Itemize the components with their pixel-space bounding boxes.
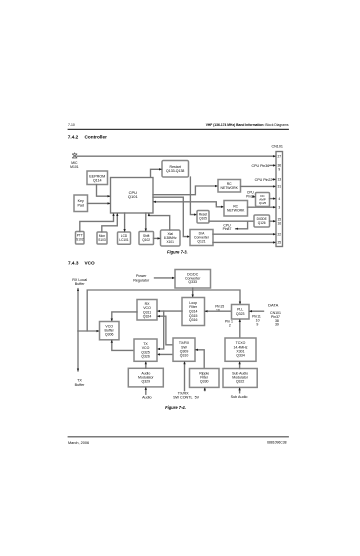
upper RC network — [218, 180, 241, 193]
svg-text:9: 9 — [256, 323, 258, 327]
crystal X101 — [161, 230, 181, 246]
wire TX VCO to VCO buffer bottom — [112, 340, 134, 350]
svg-text:13: 13 — [277, 178, 281, 182]
lower RC network — [224, 201, 248, 217]
wire buffer net to VCO buffer — [78, 330, 99, 332]
svg-text:M101: M101 — [70, 165, 79, 169]
svg-text:SW CONTL: SW CONTL — [173, 396, 192, 400]
svg-text:Q334: Q334 — [236, 354, 245, 358]
shift Q102 — [139, 232, 154, 245]
wire TX/RX SW to TX VCO — [157, 353, 173, 355]
wire shift to crystal — [154, 237, 161, 239]
wire MIC to CN101 pin27 — [77, 155, 276, 157]
svg-text:Q322: Q322 — [236, 380, 245, 384]
svg-text:S103: S103 — [98, 238, 106, 242]
wire PTT to CPU — [80, 214, 114, 232]
label CPU Pin21 — [246, 191, 255, 199]
wire keypad to CPU — [88, 202, 111, 204]
connector CN101 — [271, 145, 282, 247]
svg-text:27: 27 — [277, 154, 281, 158]
wire TX/RX SW to RX VCO — [157, 316, 173, 345]
svg-text:Q310: Q310 — [180, 354, 189, 358]
svg-text:Buffer: Buffer — [75, 383, 86, 387]
svg-text:Q101: Q101 — [128, 194, 139, 199]
wire restart network to reset — [190, 177, 196, 215]
svg-text:Audio: Audio — [142, 396, 151, 400]
wire DATA to PLL — [249, 310, 263, 312]
label RX Local Buffer — [72, 278, 87, 286]
svg-text:Q125: Q125 — [259, 201, 267, 205]
PLL Q323 — [232, 305, 250, 320]
wire to TX buffer (down arrow) — [77, 331, 79, 371]
wire DC amp to pin4 — [270, 198, 276, 200]
svg-text:9: 9 — [278, 168, 280, 172]
svg-text:Pin87: Pin87 — [223, 227, 232, 231]
reset Q105 — [197, 211, 209, 224]
EEPROM Q114 — [87, 171, 108, 185]
monitor S103 — [97, 232, 107, 244]
label Pin11 10 9 — [252, 315, 261, 327]
svg-text:Q306: Q306 — [105, 333, 114, 337]
wire monitor to CPU — [102, 214, 118, 233]
DC amp Q125 — [256, 193, 270, 207]
wire RX VCO to VCO buffer top — [112, 312, 137, 321]
wire to pin13 — [273, 178, 276, 180]
svg-text:NETWORK: NETWORK — [221, 186, 239, 190]
wire buffer net to PLL top — [87, 290, 240, 331]
wire CPU to upper RC network — [153, 186, 218, 195]
label Pin15 16 — [215, 305, 224, 313]
svg-text:16: 16 — [277, 222, 281, 226]
svg-text:VHF (136-174 MHz) Band Informa: VHF (136-174 MHz) Band Information: Bloc… — [206, 123, 289, 127]
svg-text:Figure 7-4.: Figure 7-4. — [165, 405, 186, 410]
DC/DC converter Q333 — [175, 270, 211, 289]
wire pin21 to DC amp — [253, 196, 256, 198]
ripple filter Q330 — [190, 369, 220, 388]
wire TCXO to PLL — [239, 319, 241, 338]
header rule — [68, 129, 289, 130]
svg-text:31: 31 — [277, 185, 281, 189]
wire D/A to pin25 — [213, 241, 276, 243]
svg-text:Q326: Q326 — [141, 355, 150, 359]
label Pin 1 2 — [225, 320, 233, 328]
wire audio to audio modulator — [145, 387, 147, 394]
svg-text:LC101: LC101 — [119, 238, 129, 242]
PTT S102 — [76, 232, 85, 245]
CPU Q101 — [111, 178, 154, 214]
svg-text:Q114: Q114 — [93, 179, 102, 183]
svg-text:5V: 5V — [195, 396, 200, 400]
svg-text:2: 2 — [229, 324, 231, 328]
wire CPU to restart network — [151, 169, 162, 177]
svg-text:CN101: CN101 — [271, 145, 282, 149]
wire sub audio to sub audio modulator — [239, 388, 241, 393]
wire audio modulator to TX VCO — [145, 362, 147, 369]
restart network Q133-Q138 — [162, 161, 189, 178]
diode Q126 — [254, 215, 270, 227]
wire diode to pins 15 16 — [270, 220, 276, 222]
keypad — [74, 195, 88, 212]
label CPU Pin87 — [223, 223, 232, 231]
wire D/A to pin22 — [213, 233, 276, 235]
wire crystal to CPU — [149, 214, 170, 231]
label Power Regulator — [133, 274, 150, 282]
svg-text:Q324: Q324 — [143, 315, 152, 319]
svg-text:DATA: DATA — [268, 302, 278, 307]
wire lower RC network to pin3 — [248, 206, 276, 208]
wire reset to diode — [209, 220, 254, 222]
svg-text:Q121: Q121 — [197, 239, 205, 243]
svg-text:22: 22 — [277, 233, 281, 237]
svg-text:CPU Pin36: CPU Pin36 — [252, 164, 270, 168]
svg-text:Regulator: Regulator — [133, 278, 150, 282]
microphone M101 symbol — [73, 153, 77, 158]
wire 5V to ripple filter — [204, 388, 206, 391]
svg-text:Q126: Q126 — [258, 221, 266, 225]
svg-text:Q133-Q138: Q133-Q138 — [166, 169, 184, 173]
label TX Buffer — [75, 379, 86, 387]
wire lower RC network to CPU — [153, 202, 216, 205]
label CN101 Pin37 38 39 — [270, 311, 281, 327]
svg-text:Q323: Q323 — [236, 312, 245, 316]
svg-text:Q102: Q102 — [142, 238, 150, 242]
footer rule — [68, 435, 289, 438]
svg-text:Pad: Pad — [77, 203, 83, 207]
svg-text:3: 3 — [278, 206, 280, 210]
svg-text:7-10: 7-10 — [68, 123, 75, 127]
D/A converter Q121 — [190, 230, 213, 246]
svg-text:X101: X101 — [166, 240, 174, 244]
wire ripple filter to TX/RX SW — [195, 350, 204, 369]
svg-text:39: 39 — [275, 323, 279, 327]
wire to pin36 — [270, 164, 276, 166]
wire tee to CPU Pin87 — [236, 221, 248, 229]
wire DC/DC to loop filter — [192, 288, 194, 297]
wire loop filter to RX VCO — [157, 310, 182, 312]
wire to lower RC network — [216, 204, 223, 207]
LCD LC101 — [118, 232, 131, 244]
svg-text:S102: S102 — [76, 238, 84, 242]
svg-text:6881096C38: 6881096C38 — [267, 440, 287, 444]
svg-text:Q316: Q316 — [189, 318, 198, 322]
TCXO X301 Q334 — [225, 338, 256, 361]
svg-text:March, 2006: March, 2006 — [68, 441, 89, 445]
wire CPU to LCD — [124, 213, 126, 232]
label TX/RX SW CONTL 5V — [173, 391, 200, 399]
svg-text:4: 4 — [278, 197, 280, 201]
wire power regulator to DC/DC — [155, 277, 175, 279]
svg-text:Buffer: Buffer — [75, 282, 86, 286]
wire EEPROM to CPU — [97, 185, 111, 197]
audio modulator Q329 — [128, 368, 163, 387]
label MIC M101 — [70, 161, 79, 169]
svg-text:NETWORK: NETWORK — [227, 209, 245, 213]
sub audio modulator Q322 — [223, 369, 257, 388]
wire loop filter branch to TX VCO — [157, 311, 163, 349]
VCO buffer Q306 — [100, 322, 120, 340]
RX VCO Q311 Q324 — [137, 300, 157, 321]
svg-text:Q330: Q330 — [200, 380, 209, 384]
svg-text:25: 25 — [277, 241, 281, 245]
loop filter Q314 Q315 Q316 — [182, 298, 205, 326]
svg-text:CPU Pin22: CPU Pin22 — [255, 178, 273, 182]
svg-text:Q105: Q105 — [199, 217, 207, 221]
TX/RX switch Q309 Q310 — [173, 338, 195, 361]
svg-text:Q329: Q329 — [142, 379, 151, 383]
wire to RX local buffer (up arrow) — [77, 289, 79, 331]
wire sub audio modulator to TCXO — [239, 362, 241, 369]
svg-text:Q333: Q333 — [188, 280, 197, 284]
wire upper RC network to pin31 — [241, 185, 276, 187]
svg-text:Figure 7-3.: Figure 7-3. — [167, 250, 188, 255]
wire CPU to D/A converter — [153, 197, 190, 236]
wire CPU to shift — [145, 213, 147, 231]
wire PLL to loop filter — [205, 310, 232, 312]
TX VCO Q325 Q326 — [134, 339, 157, 361]
svg-text:7.4.2Controller: 7.4.2Controller — [68, 135, 107, 140]
svg-text:Sub Audio: Sub Audio — [231, 395, 248, 399]
svg-text:7.4.3VCO: 7.4.3VCO — [68, 260, 95, 265]
wire TX/RX SW CONTL to TX/RX SW — [184, 362, 186, 391]
